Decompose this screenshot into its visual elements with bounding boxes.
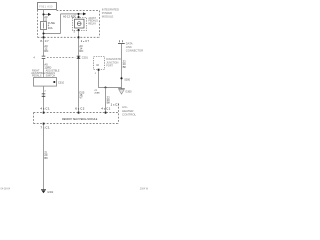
- svg-text:2⌅C7: 2⌅C7: [81, 39, 90, 43]
- svg-text:2004 W: 2004 W: [140, 187, 149, 190]
- svg-text:4⌅C1: 4⌅C1: [40, 107, 50, 111]
- svg-text:30A: 30A: [48, 26, 53, 30]
- svg-text:C310: C310: [58, 81, 65, 84]
- svg-text:RD: RD: [79, 49, 83, 53]
- svg-text:A0 12 RD: A0 12 RD: [63, 15, 75, 19]
- svg-text:CONNECTOR: CONNECTOR: [126, 48, 143, 52]
- svg-text:S300: S300: [124, 78, 130, 81]
- svg-text:BK: BK: [123, 65, 127, 69]
- svg-text:G302: G302: [47, 191, 54, 194]
- svg-text:MODULE: MODULE: [102, 15, 114, 19]
- svg-text:PORT: PORT: [106, 64, 113, 67]
- svg-text:BK: BK: [44, 156, 48, 160]
- svg-text:8⌅C7: 8⌅C7: [40, 39, 49, 43]
- svg-text:RELAY: RELAY: [88, 23, 96, 26]
- svg-text:RD: RD: [44, 49, 48, 53]
- svg-text:MEMORY SEAT PEDAL MODULE: MEMORY SEAT PEDAL MODULE: [62, 118, 98, 121]
- svg-text:INTEGRATED: INTEGRATED: [102, 8, 119, 12]
- svg-text:F951 A30: F951 A30: [39, 5, 53, 8]
- svg-text:1⌅C1: 1⌅C1: [111, 103, 120, 107]
- svg-text:POWER: POWER: [102, 11, 112, 15]
- svg-text:20BK: 20BK: [94, 92, 100, 94]
- svg-text:C201: C201: [82, 56, 89, 59]
- svg-text:CONTROL: CONTROL: [122, 112, 137, 116]
- svg-text:6⌅C2: 6⌅C2: [75, 107, 85, 111]
- svg-text:VT: VT: [79, 96, 83, 100]
- svg-text:G300: G300: [125, 90, 132, 93]
- svg-text:7⌅C1: 7⌅C1: [40, 125, 50, 129]
- svg-text:04-28-04: 04-28-04: [1, 187, 11, 190]
- svg-text:4⌅C1: 4⌅C1: [101, 107, 111, 111]
